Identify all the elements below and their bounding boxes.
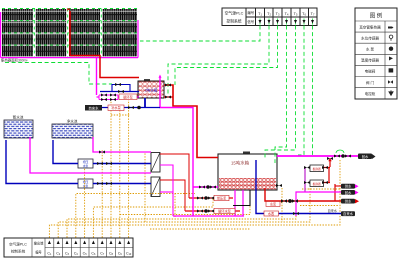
svg-text:回水: 回水 [345,190,352,195]
svg-text:增压泵: 增压泵 [217,196,227,201]
svg-text:板换器: 板换器 [313,182,321,186]
svg-text:集热器面积300m²: 集热器面积300m² [1,58,28,63]
svg-text:蓄水池: 蓄水池 [13,115,24,120]
svg-text:净水池: 净水池 [67,119,78,124]
svg-text:C5: C5 [83,252,88,257]
svg-text:水泵: 水泵 [83,164,89,168]
svg-text:编号: 编号 [35,250,41,255]
svg-text:C6: C6 [91,252,96,257]
svg-text:信号: 信号 [247,19,254,24]
svg-text:阀 门: 阀 门 [366,80,375,85]
svg-text:15吨水箱: 15吨水箱 [231,160,250,167]
svg-text:自来水: 自来水 [343,211,354,216]
svg-text:空气源PLC: 空气源PLC [9,242,27,247]
svg-text:板换器: 板换器 [313,167,321,171]
svg-text:控制系统: 控制系统 [11,249,26,254]
svg-text:水 泵: 水 泵 [366,47,375,52]
svg-text:补水泵: 补水泵 [111,105,121,110]
svg-text:真空管集热器: 真空管集热器 [359,24,381,29]
svg-text:自来水: 自来水 [88,105,99,110]
svg-text:电控柜: 电控柜 [365,91,376,96]
svg-text:供水: 供水 [345,184,352,189]
svg-text:控制系统: 控制系统 [226,19,241,24]
svg-text:C7: C7 [100,252,105,257]
svg-text:C8: C8 [109,252,114,257]
svg-text:温度传感器: 温度传感器 [361,58,379,63]
svg-text:图 例: 图 例 [370,12,383,20]
svg-text:供水: 供水 [345,199,352,204]
svg-text:循环水泵: 循环水泵 [218,209,232,214]
svg-text:输出端: 输出端 [34,241,44,246]
svg-text:自来水: 自来水 [327,208,337,213]
svg-text:水泵: 水泵 [270,202,277,207]
svg-text:编号: 编号 [247,10,254,15]
svg-text:C9: C9 [118,252,123,257]
svg-text:C10: C10 [126,252,132,257]
svg-text:水表: 水表 [268,211,275,216]
svg-text:水位传感器: 水位传感器 [361,35,379,40]
svg-text:回水: 回水 [362,154,369,159]
svg-text:C2: C2 [56,252,61,257]
svg-text:C3: C3 [65,252,70,257]
svg-text:循环泵: 循环泵 [123,94,133,99]
svg-text:电磁阀: 电磁阀 [365,69,376,74]
svg-text:C4: C4 [74,252,79,257]
svg-text:空气源PLC: 空气源PLC [225,11,244,16]
svg-text:C1: C1 [47,252,52,257]
svg-text:2吨水箱: 2吨水箱 [145,88,158,93]
svg-text:水泵: 水泵 [83,184,89,188]
